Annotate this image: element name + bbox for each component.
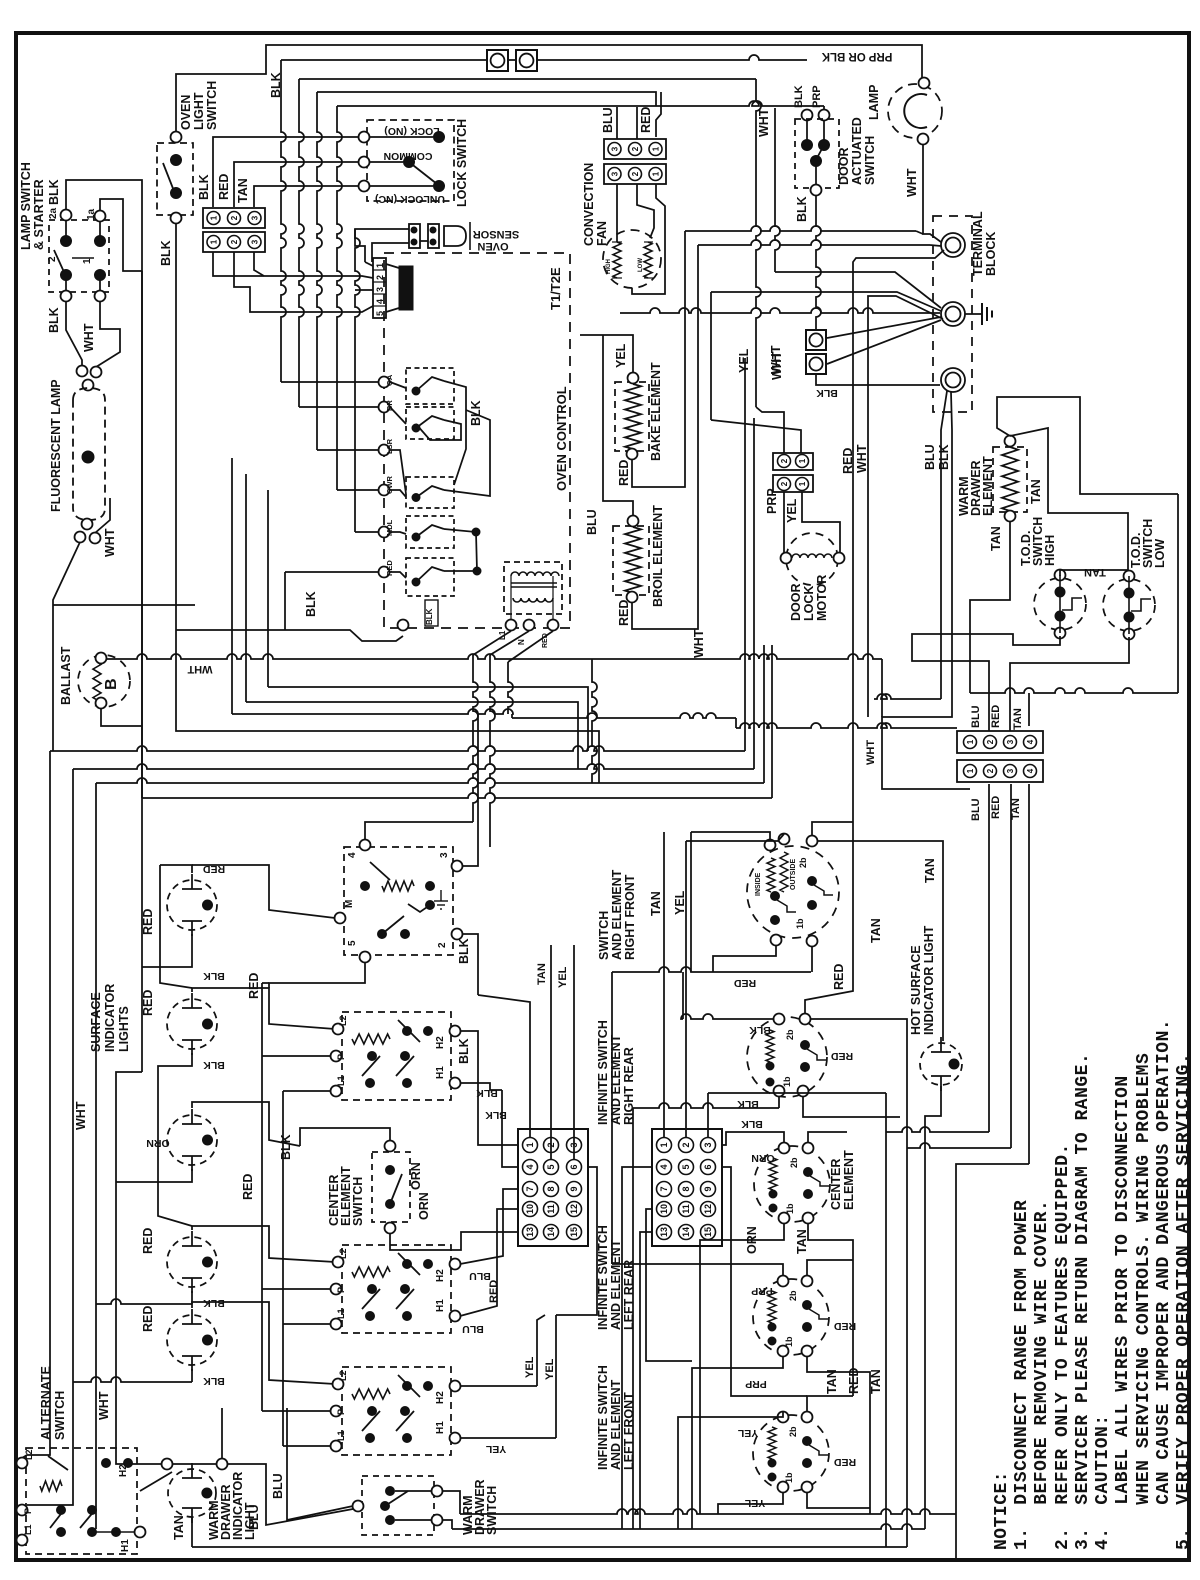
svg-text:2a: 2a bbox=[48, 207, 59, 219]
heating coil symbol at connector bbox=[399, 266, 413, 310]
svg-text:TAN: TAN bbox=[649, 891, 663, 916]
svg-text:INFINITE SWITCH: INFINITE SWITCH bbox=[596, 1225, 610, 1330]
svg-text:TAN: TAN bbox=[172, 1515, 186, 1540]
svg-text:LOW: LOW bbox=[638, 258, 644, 272]
svg-text:LOCK SWITCH: LOCK SWITCH bbox=[455, 119, 469, 207]
svg-text:PRP: PRP bbox=[811, 85, 823, 108]
svg-text:CAN CAUSE IMPROPER AND DANGERO: CAN CAUSE IMPROPER AND DANGEROUS OPERATI… bbox=[1154, 1019, 1174, 1550]
svg-text:10: 10 bbox=[525, 1204, 535, 1214]
svg-text:3: 3 bbox=[251, 215, 260, 220]
svg-text:P: P bbox=[336, 1409, 346, 1415]
svg-text:BLU: BLU bbox=[585, 509, 599, 535]
light 5 bbox=[167, 1315, 217, 1365]
svg-text:HOT SURFACE: HOT SURFACE bbox=[909, 945, 923, 1035]
door lock connector row1 bbox=[773, 453, 813, 470]
svg-text:L2: L2 bbox=[338, 1015, 348, 1026]
svg-text:MDL: MDL bbox=[385, 519, 394, 536]
svg-text:BLK: BLK bbox=[425, 608, 434, 625]
svg-text:BLK: BLK bbox=[795, 196, 809, 222]
wire bus y769 bbox=[73, 764, 754, 769]
wires from connector up to lock switch bbox=[213, 137, 359, 207]
svg-text:H2: H2 bbox=[435, 1391, 446, 1404]
svg-text:ORN: ORN bbox=[409, 1162, 423, 1190]
terminal 2 bbox=[941, 302, 965, 326]
svg-text:BLK: BLK bbox=[457, 938, 471, 964]
convection fan motor bbox=[603, 230, 661, 288]
svg-text:BLU: BLU bbox=[970, 705, 982, 728]
svg-text:INDICATOR: INDICATOR bbox=[103, 984, 117, 1052]
svg-text:12: 12 bbox=[703, 1204, 713, 1214]
svg-text:4: 4 bbox=[347, 852, 358, 858]
relay right links bbox=[444, 381, 466, 485]
svg-text:1: 1 bbox=[652, 171, 661, 176]
svg-text:P: P bbox=[336, 1054, 346, 1060]
ballast bottom wire bbox=[101, 708, 142, 726]
svg-text:3: 3 bbox=[611, 171, 620, 176]
wire bus2 left corner down to alternate switch P bbox=[27, 769, 73, 1505]
TOD wires bbox=[970, 521, 1010, 693]
svg-text:LOCK (NO): LOCK (NO) bbox=[384, 125, 439, 137]
svg-text:INFINITE SWITCH: INFINITE SWITCH bbox=[596, 1365, 610, 1470]
wire to MDL terminal bbox=[355, 531, 379, 533]
svg-text:RED: RED bbox=[617, 460, 631, 486]
svg-text:YEL: YEL bbox=[544, 1358, 556, 1380]
svg-text:2b: 2b bbox=[798, 857, 808, 868]
svg-text:BLK: BLK bbox=[197, 174, 211, 200]
light 3 bbox=[167, 1115, 217, 1165]
svg-text:6: 6 bbox=[569, 1164, 579, 1169]
RR bottom-left wire bbox=[633, 1103, 779, 1108]
wire WHT bus y313 into terminal 2 bbox=[620, 308, 940, 313]
svg-text:4: 4 bbox=[375, 299, 385, 304]
svg-text:BLK: BLK bbox=[457, 1038, 471, 1064]
15-pin connector right bbox=[652, 1129, 722, 1246]
svg-text:UNLOCK (NC): UNLOCK (NC) bbox=[375, 193, 445, 205]
svg-text:RIGHT REAR: RIGHT REAR bbox=[622, 1047, 636, 1125]
wires at warm drawer indicator bbox=[140, 1472, 172, 1491]
svg-text:GA: GA bbox=[385, 374, 394, 386]
svg-text:RED: RED bbox=[990, 705, 1002, 728]
svg-text:RED: RED bbox=[830, 1050, 853, 1062]
svg-text:AND ELEMENT: AND ELEMENT bbox=[609, 1379, 623, 1470]
svg-text:RED: RED bbox=[833, 1456, 856, 1468]
svg-text:2b: 2b bbox=[788, 1290, 798, 1301]
svg-text:TAN: TAN bbox=[923, 858, 937, 883]
svg-text:TAN: TAN bbox=[1084, 566, 1106, 578]
svg-text:LABEL ALL WIRES PRIOR TO DISCO: LABEL ALL WIRES PRIOR TO DISCONNECTION bbox=[1113, 1075, 1133, 1550]
svg-text:2: 2 bbox=[631, 171, 640, 176]
svg-text:RED: RED bbox=[833, 1320, 856, 1332]
wire y699 bbox=[874, 694, 941, 699]
oven control left terminals bbox=[379, 377, 390, 388]
svg-text:RED: RED bbox=[733, 977, 756, 989]
svg-text:3: 3 bbox=[611, 146, 620, 151]
terminal 1 bbox=[941, 233, 965, 257]
svg-text:2: 2 bbox=[230, 215, 239, 220]
svg-text:BLK: BLK bbox=[741, 1118, 763, 1130]
svg-text:15: 15 bbox=[703, 1227, 713, 1237]
svg-text:RED: RED bbox=[990, 796, 1002, 819]
light1 wires bbox=[160, 865, 192, 873]
svg-text:NOTICE:: NOTICE: bbox=[992, 1471, 1012, 1550]
svg-text:BALLAST: BALLAST bbox=[59, 646, 73, 705]
wire bus1 left corner down to alternate switch L2 bbox=[22, 751, 50, 1458]
horizontal wire y605 bbox=[53, 604, 195, 606]
svg-text:PRP OR BLK: PRP OR BLK bbox=[821, 50, 892, 62]
svg-text:TERMINAL: TERMINAL bbox=[971, 211, 985, 276]
svg-text:YEL: YEL bbox=[614, 343, 628, 368]
svg-text:TAN: TAN bbox=[869, 1369, 883, 1394]
CE wires bbox=[722, 1132, 784, 1145]
svg-text:BLK: BLK bbox=[47, 307, 61, 333]
svg-text:LAMP SWITCH: LAMP SWITCH bbox=[19, 162, 33, 250]
svg-text:INFINITE SWITCH: INFINITE SWITCH bbox=[596, 1020, 610, 1125]
wire into RR top bbox=[681, 1014, 774, 1019]
dual switch box 4 bbox=[342, 1367, 451, 1455]
svg-text:2: 2 bbox=[631, 146, 640, 151]
svg-text:9: 9 bbox=[569, 1186, 579, 1191]
svg-text:11: 11 bbox=[546, 1204, 556, 1214]
svg-text:SWITCH: SWITCH bbox=[351, 1177, 365, 1226]
wires into right 15-pin connector bbox=[663, 832, 665, 1137]
wire RR top right continue bbox=[805, 822, 853, 1014]
RF element bottom wires bbox=[713, 945, 776, 972]
convection fan connector row1 bbox=[604, 139, 666, 159]
svg-text:BLK: BLK bbox=[203, 1375, 225, 1387]
wires from 3-pin connector row2 down to oven control pins bbox=[213, 252, 373, 278]
svg-text:RED: RED bbox=[847, 1368, 861, 1394]
svg-text:DOOR: DOOR bbox=[837, 148, 851, 186]
oven control dashed box bbox=[384, 253, 570, 628]
wires to fluorescent lamp top bbox=[66, 301, 82, 366]
svg-text:L2: L2 bbox=[24, 1449, 34, 1460]
door lock motor bbox=[786, 533, 838, 585]
svg-text:B: B bbox=[103, 678, 120, 690]
svg-text:AND ELEMENT: AND ELEMENT bbox=[609, 1239, 623, 1330]
relay contact 3 bbox=[406, 477, 454, 508]
bus right risers bbox=[744, 358, 746, 751]
svg-text:BLK: BLK bbox=[304, 591, 318, 617]
svg-text:CWR: CWR bbox=[385, 476, 394, 494]
warm drawer element wires bbox=[997, 397, 1178, 494]
svg-text:WHT: WHT bbox=[905, 168, 919, 197]
svg-text:LAMP: LAMP bbox=[867, 85, 881, 120]
lamp switch & starter bbox=[49, 220, 109, 292]
svg-text:L1: L1 bbox=[336, 1308, 346, 1319]
ground inside box1 bbox=[434, 900, 448, 902]
svg-text:BLU: BLU bbox=[247, 1504, 261, 1530]
svg-text:10: 10 bbox=[659, 1204, 669, 1214]
wire rail y1514 bbox=[460, 1509, 956, 1514]
svg-text:RED: RED bbox=[832, 964, 846, 990]
broil element wires bbox=[603, 335, 633, 516]
svg-text:1. DISCONNECT RANGE FROM POWE: 1. DISCONNECT RANGE FROM POWER bbox=[1012, 1200, 1032, 1550]
svg-text:ORN: ORN bbox=[417, 1192, 431, 1220]
svg-text:BLU: BLU bbox=[271, 1473, 285, 1499]
svg-text:3: 3 bbox=[1006, 739, 1015, 744]
box4 wires bbox=[460, 1385, 537, 1387]
svg-text:14: 14 bbox=[681, 1227, 691, 1237]
svg-text:4: 4 bbox=[1026, 768, 1035, 773]
svg-text:AND ELEMENT: AND ELEMENT bbox=[610, 869, 624, 960]
wire bus y783 bbox=[96, 778, 764, 783]
wire WHT branch from bus y106 down to terminal 2 bbox=[775, 108, 780, 272]
svg-text:M: M bbox=[344, 900, 355, 908]
wire 2a up and around to bus line 5 bbox=[66, 180, 142, 798]
svg-text:5: 5 bbox=[347, 940, 358, 946]
svg-text:YEL: YEL bbox=[785, 498, 799, 523]
oven lamp bbox=[888, 84, 942, 138]
terminal 3 bbox=[941, 368, 965, 392]
svg-text:1: 1 bbox=[966, 768, 975, 773]
svg-text:1: 1 bbox=[375, 263, 385, 268]
svg-text:BLK: BLK bbox=[793, 85, 805, 108]
svg-text:WHT: WHT bbox=[692, 629, 706, 658]
svg-text:LEFT FRONT: LEFT FRONT bbox=[622, 1392, 636, 1470]
wire y292 into terminal 2 bbox=[711, 292, 941, 311]
svg-text:7: 7 bbox=[525, 1186, 535, 1191]
svg-text:5: 5 bbox=[375, 311, 385, 316]
svg-text:CENTER: CENTER bbox=[829, 1159, 843, 1210]
4-pin connector row2 bbox=[957, 760, 1043, 782]
svg-text:TAN: TAN bbox=[869, 918, 883, 943]
svg-text:LOW: LOW bbox=[1153, 539, 1167, 568]
svg-text:SWITCH: SWITCH bbox=[863, 136, 877, 185]
svg-text:OVEN CONTROL: OVEN CONTROL bbox=[554, 386, 569, 491]
svg-text:SENSOR: SENSOR bbox=[473, 228, 520, 240]
svg-text:13: 13 bbox=[659, 1227, 669, 1237]
svg-text:INSIDE: INSIDE bbox=[755, 872, 762, 896]
svg-text:WHT: WHT bbox=[97, 1391, 111, 1420]
wire bus y751 bbox=[50, 746, 745, 751]
svg-text:BLU: BLU bbox=[970, 798, 982, 821]
transformer in oven control bbox=[504, 562, 562, 614]
svg-text:MOTOR: MOTOR bbox=[815, 575, 829, 621]
svg-text:SWITCH: SWITCH bbox=[485, 1486, 499, 1535]
mid horizontal wires from left verticals bbox=[268, 687, 588, 751]
connector block 3-pin row2 bbox=[203, 232, 265, 252]
svg-text:2b: 2b bbox=[789, 1157, 799, 1168]
wires above connector bbox=[616, 107, 618, 139]
relay terminal stubs bbox=[390, 382, 406, 388]
svg-text:LSR: LSR bbox=[385, 438, 394, 454]
svg-text:1: 1 bbox=[652, 146, 661, 151]
feed vertical x612 down to LR bbox=[611, 972, 613, 1264]
svg-text:4: 4 bbox=[659, 1164, 669, 1169]
limiter square on top bus 1 bbox=[487, 50, 508, 71]
wire to LSR terminal bbox=[317, 449, 379, 451]
svg-text:BLU: BLU bbox=[601, 107, 615, 133]
svg-text:SWITCH: SWITCH bbox=[597, 911, 611, 960]
relay contact 5 bbox=[406, 558, 454, 596]
svg-text:CONVECTION: CONVECTION bbox=[582, 163, 596, 246]
svg-text:BLK: BLK bbox=[469, 400, 483, 426]
convection fan connector row2 bbox=[604, 164, 666, 184]
svg-text:3: 3 bbox=[251, 239, 260, 244]
wire lamp bottom to terminal 1 bbox=[923, 144, 941, 242]
svg-text:RED: RED bbox=[241, 1174, 255, 1200]
svg-text:4. CAUTION:: 4. CAUTION: bbox=[1093, 1414, 1113, 1550]
lock switch bbox=[367, 120, 454, 201]
ground at terminal 2 bbox=[965, 313, 982, 315]
svg-text:8: 8 bbox=[546, 1186, 556, 1191]
svg-text:1: 1 bbox=[210, 239, 219, 244]
svg-text:WHT: WHT bbox=[865, 740, 877, 765]
svg-text:RED: RED bbox=[217, 174, 231, 200]
svg-text:BLOCK: BLOCK bbox=[984, 232, 998, 276]
svg-text:ORN: ORN bbox=[146, 1137, 169, 1149]
svg-text:1: 1 bbox=[210, 215, 219, 220]
svg-text:2. REFER ONLY TO FEATURES EQU: 2. REFER ONLY TO FEATURES EQUIPPED. bbox=[1053, 1143, 1073, 1550]
svg-text:BLK: BLK bbox=[47, 179, 61, 205]
dual switch box 3 bbox=[342, 1245, 451, 1333]
svg-text:2b: 2b bbox=[785, 1029, 795, 1040]
svg-text:BEFORE REMOVING WIRE COVER.: BEFORE REMOVING WIRE COVER. bbox=[1032, 1200, 1052, 1550]
fan wires bbox=[616, 184, 618, 242]
svg-text:WHT: WHT bbox=[187, 663, 212, 675]
relay contact 4 bbox=[406, 516, 454, 548]
svg-text:YEL: YEL bbox=[673, 890, 687, 915]
svg-text:12: 12 bbox=[569, 1204, 579, 1214]
wire TOD bottom bus y693 bbox=[970, 688, 1178, 693]
feed vertical x683 bbox=[682, 972, 684, 1019]
svg-text:WHT: WHT bbox=[855, 444, 869, 473]
wires to oven sensor bbox=[355, 229, 409, 262]
svg-text:2: 2 bbox=[681, 1142, 691, 1147]
center element circle bbox=[754, 1146, 830, 1222]
svg-text:T1/T2E: T1/T2E bbox=[548, 267, 563, 310]
svg-text:YEL: YEL bbox=[524, 1356, 536, 1378]
svg-text:ELEMENT: ELEMENT bbox=[842, 1150, 856, 1210]
svg-text:1: 1 bbox=[659, 1142, 669, 1147]
svg-text:TAN: TAN bbox=[1012, 708, 1024, 730]
wire from indicator bottom to rail bbox=[192, 1546, 907, 1548]
svg-text:& STARTER: & STARTER bbox=[32, 179, 46, 250]
svg-text:1: 1 bbox=[82, 258, 93, 264]
svg-text:LOCK: LOCK bbox=[802, 586, 816, 621]
svg-text:TAN: TAN bbox=[236, 178, 250, 203]
svg-text:TAN: TAN bbox=[989, 526, 1003, 551]
svg-text:SWITCH: SWITCH bbox=[53, 1391, 67, 1440]
svg-text:ORN: ORN bbox=[745, 1226, 759, 1254]
svg-text:RED: RED bbox=[488, 1280, 500, 1303]
wire to BR terminal bbox=[299, 406, 379, 408]
svg-text:BLK: BLK bbox=[279, 1134, 293, 1160]
svg-text:2b: 2b bbox=[788, 1426, 798, 1437]
svg-text:FAN: FAN bbox=[595, 221, 609, 246]
svg-text:BLU: BLU bbox=[462, 1323, 484, 1335]
wire WHT bus y659 bbox=[106, 654, 882, 659]
warm drawer switch bbox=[362, 1476, 434, 1535]
svg-text:2: 2 bbox=[230, 239, 239, 244]
svg-text:INDICATOR LIGHT: INDICATOR LIGHT bbox=[922, 925, 936, 1035]
svg-text:H1: H1 bbox=[435, 1421, 446, 1434]
svg-text:BLK: BLK bbox=[203, 1059, 225, 1071]
svg-text:2: 2 bbox=[375, 275, 385, 280]
terminal block bbox=[933, 216, 972, 412]
svg-text:3: 3 bbox=[375, 287, 385, 292]
connector block 3-pin row1 bbox=[203, 208, 265, 228]
svg-text:DOOR: DOOR bbox=[789, 584, 803, 622]
4-pin connector row1 bbox=[957, 731, 1043, 753]
top bus wire y60 BLK bbox=[281, 55, 807, 60]
infinite element left front bbox=[753, 1415, 829, 1491]
svg-text:N: N bbox=[517, 639, 526, 645]
svg-text:RED: RED bbox=[141, 1228, 155, 1254]
svg-text:9: 9 bbox=[703, 1186, 713, 1191]
svg-text:BLK: BLK bbox=[485, 1109, 507, 1121]
LF wires bbox=[678, 1412, 783, 1529]
RED feed chain verticals bbox=[262, 982, 269, 984]
bus y79 bbox=[299, 78, 756, 80]
svg-text:P: P bbox=[23, 1508, 33, 1514]
wire oven light switch to top wire bbox=[176, 45, 922, 131]
limiter square on top bus 2 bbox=[516, 50, 537, 71]
wire bus y972 bbox=[612, 967, 811, 972]
wire lamp-switch vertical down through rows to lights bbox=[141, 271, 143, 1072]
svg-text:TAN: TAN bbox=[825, 1369, 839, 1394]
wire 1a loop bbox=[100, 199, 142, 271]
svg-text:RED: RED bbox=[617, 600, 631, 626]
svg-text:ALTERNATE: ALTERNATE bbox=[39, 1366, 53, 1440]
svg-text:RED: RED bbox=[141, 909, 155, 935]
wire bus y798 bbox=[142, 793, 772, 798]
relay contact 2 bbox=[406, 407, 454, 439]
wire TAN from connector to TOD loop bbox=[1028, 693, 1030, 726]
15-pin connector left bbox=[518, 1129, 588, 1246]
RF element wires top bbox=[691, 832, 770, 840]
svg-text:LIGHTS: LIGHTS bbox=[117, 1006, 131, 1052]
oven light switch bbox=[157, 143, 193, 215]
svg-text:1: 1 bbox=[798, 481, 807, 486]
svg-text:BROIL ELEMENT: BROIL ELEMENT bbox=[651, 505, 665, 607]
svg-text:TAN: TAN bbox=[536, 963, 548, 985]
svg-text:TAN: TAN bbox=[795, 1229, 809, 1254]
wire rail y1529 bbox=[452, 1524, 925, 1529]
wire to CWR terminal bbox=[337, 489, 379, 491]
wire to GA terminal bbox=[281, 381, 379, 383]
svg-text:YEL: YEL bbox=[485, 1443, 506, 1455]
svg-text:2: 2 bbox=[437, 942, 448, 948]
svg-text:OVEN: OVEN bbox=[477, 240, 508, 252]
svg-text:2: 2 bbox=[986, 739, 995, 744]
wire y245 from broil into terminal 1 bbox=[698, 240, 930, 245]
svg-text:LIGHT: LIGHT bbox=[192, 92, 206, 130]
door lock motor wires bbox=[783, 492, 785, 553]
surface indicator light 2 bbox=[167, 999, 217, 1049]
svg-text:L2: L2 bbox=[338, 1370, 348, 1381]
svg-text:13: 13 bbox=[525, 1227, 535, 1237]
svg-text:H2: H2 bbox=[435, 1269, 446, 1282]
svg-text:L1: L1 bbox=[336, 1075, 346, 1086]
wires below 4-pin connector row2 bbox=[988, 784, 990, 1132]
bus y92 bbox=[317, 92, 656, 106]
light 4 bbox=[167, 1237, 217, 1287]
svg-text:BLU: BLU bbox=[923, 444, 937, 470]
svg-text:YEL: YEL bbox=[744, 1497, 765, 1509]
turns to the left at bottom bbox=[886, 1127, 989, 1132]
box2 wires bbox=[460, 1031, 518, 1145]
bake element wires bbox=[580, 335, 633, 372]
wires from oven control bottom down across bus bbox=[473, 655, 478, 822]
wire WHT from lamp bottom to bus bbox=[53, 542, 80, 751]
fluorescent lamp bottom terminals bbox=[75, 532, 86, 543]
svg-text:BLK: BLK bbox=[937, 444, 951, 470]
svg-text:1b: 1b bbox=[795, 918, 805, 929]
svg-text:HIGH: HIGH bbox=[606, 259, 612, 274]
oven control bottom terminals bbox=[398, 620, 409, 631]
svg-text:14: 14 bbox=[546, 1227, 556, 1237]
